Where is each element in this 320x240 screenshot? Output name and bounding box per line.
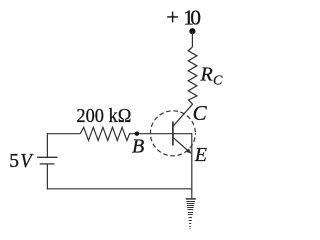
resistor RB 200k (drawn over base wire) — [80, 127, 129, 141]
battery V1 bottom wire — [46, 164, 48, 190]
transistor Q1 base bar — [172, 121, 174, 145]
svg-text:C: C — [193, 101, 208, 125]
transistor Q1 collector lead — [173, 104, 193, 126]
svg-text:+: + — [166, 4, 179, 29]
bottom wire — [47, 188, 192, 190]
node dot supply — [189, 28, 195, 34]
transistor Q1 emitter arrowhead — [186, 149, 191, 154]
svg-text:0: 0 — [190, 5, 201, 29]
ground tapered dashes — [186, 202, 195, 229]
ground top bar — [186, 198, 196, 200]
base wire from battery through B to corner — [47, 133, 191, 135]
battery V1 long plate — [37, 156, 58, 158]
battery V1 short plate — [40, 163, 55, 165]
svg-text:B: B — [132, 136, 144, 158]
transistor Q1 dashed circle — [150, 111, 195, 156]
node dot B — [135, 132, 139, 136]
svg-text:5: 5 — [9, 151, 19, 172]
svg-text:200 kΩ: 200 kΩ — [76, 105, 131, 127]
svg-text:V: V — [20, 151, 34, 172]
vertical wire E branch down to ground — [191, 133, 193, 198]
transistor Q1 emitter lead — [173, 137, 190, 152]
svg-text:R: R — [200, 64, 213, 86]
wire supply dot to RC — [191, 31, 193, 47]
resistor RC — [188, 47, 197, 104]
svg-text:E: E — [194, 144, 207, 166]
svg-text:C: C — [213, 74, 223, 89]
battery V1 top wire — [46, 133, 48, 157]
